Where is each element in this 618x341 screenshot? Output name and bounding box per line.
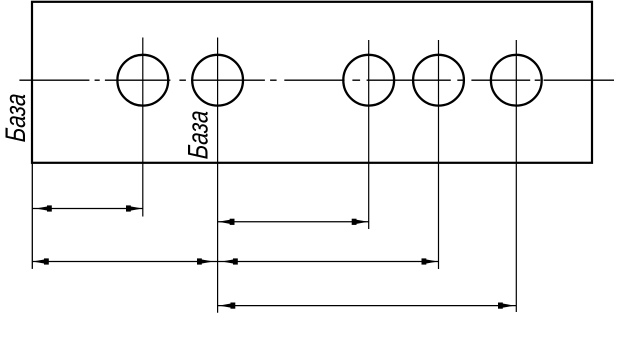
vertical centerline hole 2 <box>217 38 219 313</box>
svg-text:База: База <box>0 92 31 142</box>
arrow D3 middle-right <box>222 259 238 265</box>
arrow D3 middle-left <box>198 259 214 265</box>
hole 1 <box>117 55 168 106</box>
vertical centerline hole 1 <box>142 38 144 217</box>
dimension line D2 <box>218 219 369 225</box>
arrow D4 left <box>219 303 235 309</box>
vertical centerline hole 5 <box>515 40 517 312</box>
hole 5 <box>491 55 542 106</box>
hole 3 <box>343 55 394 106</box>
arrow D2 right <box>352 219 368 225</box>
arrow D1 right <box>127 206 143 212</box>
plate outline <box>32 2 592 163</box>
dimension line D1 <box>32 205 143 211</box>
vertical centerline hole 4 <box>438 40 440 269</box>
arrow D3 left <box>33 259 49 265</box>
arrow D3 right <box>422 259 438 265</box>
horizontal centerline (dash-dot) <box>19 79 614 81</box>
hole 2 <box>192 55 243 106</box>
arrow D2 left <box>218 219 234 225</box>
arrow D1 left <box>36 206 52 212</box>
dimension line D3 left segment <box>32 258 218 264</box>
svg-text:База: База <box>183 109 214 159</box>
extension line from plate left edge <box>31 163 33 269</box>
dimension line D4 <box>218 303 517 309</box>
arrow D4 right <box>499 303 515 309</box>
hole 4 <box>413 55 464 106</box>
dimension line D3 right segment <box>218 258 439 264</box>
vertical centerline hole 3 <box>368 40 370 229</box>
